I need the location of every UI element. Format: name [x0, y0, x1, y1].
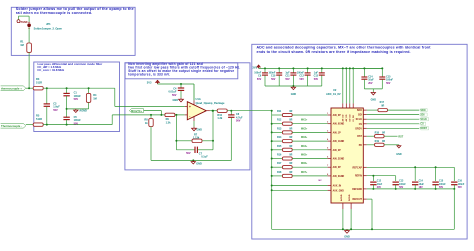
- svg-text:3V3: 3V3: [147, 81, 152, 85]
- svg-text:GND: GND: [344, 235, 350, 238]
- svg-text:U1A: U1A: [196, 97, 201, 101]
- svg-text:3: 3: [327, 130, 328, 132]
- svg-text:RST: RST: [398, 135, 403, 138]
- svg-text:rail when no thermocouple is c: rail when no thermocouple is connected.: [16, 11, 93, 15]
- svg-text:10uF: 10uF: [377, 184, 383, 186]
- svg-text:MX3+: MX3+: [301, 136, 308, 139]
- svg-text:DV_DD: DV_DD: [350, 114, 352, 122]
- svg-text:DGND: DGND: [349, 194, 351, 201]
- svg-text:MX4+: MX4+: [301, 145, 308, 148]
- svg-text:AIN_3P: AIN_3P: [333, 166, 342, 169]
- svg-text:GND: GND: [196, 129, 202, 132]
- svg-text:1.3k: 1.3k: [217, 117, 222, 120]
- svg-text:0R: 0R: [289, 145, 292, 148]
- svg-text:100nF: 100nF: [439, 184, 446, 186]
- svg-text:511R: 511R: [36, 117, 42, 121]
- svg-text:R14: R14: [277, 136, 282, 139]
- svg-text:AUX_GND: AUX_GND: [333, 189, 345, 192]
- svg-text:1.3k: 1.3k: [166, 121, 171, 124]
- svg-text:50V: 50V: [285, 78, 290, 81]
- svg-text:AIN_2P: AIN_2P: [333, 149, 342, 152]
- svg-text:R15: R15: [277, 145, 282, 148]
- svg-text:R16: R16: [277, 154, 282, 157]
- svg-text:REFIN: REFIN: [355, 176, 362, 178]
- svg-text:7: 7: [327, 165, 328, 167]
- svg-text:PGND: PGND: [21, 21, 28, 24]
- svg-text:R19: R19: [375, 140, 380, 143]
- svg-text:50V: 50V: [271, 78, 276, 81]
- svg-text:AIN_1GND: AIN_1GND: [333, 140, 345, 143]
- svg-text:AIN_0GND: AIN_0GND: [333, 123, 345, 126]
- svg-text:20V: 20V: [368, 82, 373, 85]
- svg-text:50V: 50V: [53, 109, 58, 112]
- svg-text:GND: GND: [291, 93, 297, 96]
- svg-text:0R: 0R: [289, 171, 292, 174]
- svg-text:2: 2: [327, 122, 328, 124]
- svg-text:MXn/TC+: MXn/TC+: [131, 109, 143, 113]
- svg-text:ADC_19_8V: ADC_19_8V: [326, 92, 341, 96]
- svg-text:MX6+: MX6+: [301, 162, 308, 165]
- svg-text:temperatures, is 333 mV.: temperatures, is 333 mV.: [128, 73, 170, 77]
- svg-text:C15: C15: [439, 181, 444, 183]
- svg-text:0R: 0R: [289, 119, 292, 122]
- svg-text:R12: R12: [277, 119, 282, 122]
- svg-text:SDO: SDO: [357, 110, 362, 112]
- svg-text:0R: 0R: [289, 110, 292, 113]
- svg-text:PD: PD: [359, 145, 363, 147]
- svg-text:1: 1: [327, 113, 328, 115]
- svg-text:R18: R18: [375, 131, 380, 134]
- svg-text:ends to the circuit shown. 0R: ends to the circuit shown. 0R resistors …: [257, 50, 411, 54]
- svg-text:50V: 50V: [386, 82, 391, 85]
- svg-text:6: 6: [327, 156, 328, 158]
- svg-text:0R: 0R: [289, 162, 292, 165]
- svg-text:50V: 50V: [257, 78, 262, 81]
- svg-text:GND: GND: [172, 99, 178, 102]
- svg-text:SolderJumper_2_Open: SolderJumper_2_Open: [34, 26, 63, 30]
- svg-text:0R: 0R: [381, 105, 384, 108]
- svg-text:C14: C14: [419, 180, 424, 183]
- svg-text:50V: 50V: [314, 78, 319, 81]
- svg-text:0R: 0R: [289, 136, 292, 139]
- svg-text:NC: NC: [319, 180, 323, 182]
- svg-text:AV_DD: AV_DD: [345, 114, 348, 121]
- svg-text:50V: 50V: [172, 94, 177, 97]
- svg-text:R11: R11: [277, 110, 282, 113]
- svg-text:Quad_Opamp_Package: Quad_Opamp_Package: [196, 101, 226, 105]
- svg-text:+: +: [189, 105, 191, 109]
- svg-text:5: 5: [327, 148, 328, 150]
- svg-text:50V: 50V: [458, 187, 463, 189]
- svg-text:100nF: 100nF: [458, 184, 465, 186]
- svg-text:3V3: 3V3: [252, 66, 257, 70]
- svg-text:8: 8: [327, 174, 328, 176]
- svg-text:0R: 0R: [382, 131, 385, 134]
- svg-text:CS: CS: [359, 124, 363, 126]
- svg-text:50V: 50V: [236, 120, 241, 123]
- svg-text:AIN_3GND: AIN_3GND: [333, 175, 345, 178]
- svg-text:C13: C13: [399, 181, 404, 183]
- svg-text:MX5+: MX5+: [301, 154, 308, 157]
- svg-text:50V: 50V: [74, 122, 79, 125]
- svg-text:R18: R18: [277, 171, 282, 174]
- svg-text:Thermocouple -: Thermocouple -: [1, 124, 22, 128]
- svg-text:FC_com = 31.8 MHz: FC_com = 31.8 MHz: [38, 68, 65, 72]
- svg-text:0R: 0R: [289, 127, 292, 130]
- svg-text:100nF: 100nF: [399, 184, 406, 186]
- svg-text:-: -: [189, 114, 190, 118]
- svg-text:MX2+: MX2+: [301, 127, 308, 130]
- svg-text:SDI: SDI: [358, 115, 362, 117]
- svg-text:50V: 50V: [186, 152, 191, 155]
- svg-text:AUX_IN: AUX_IN: [333, 185, 342, 188]
- svg-text:MX7+: MX7+: [301, 171, 308, 174]
- svg-text:C16: C16: [458, 181, 463, 183]
- svg-text:REFGND: REFGND: [352, 189, 362, 191]
- svg-text:0R: 0R: [382, 140, 385, 143]
- svg-text:SCLK: SCLK: [356, 119, 363, 121]
- svg-text:MX1+: MX1+: [301, 119, 308, 122]
- svg-text:AGND: AGND: [340, 194, 343, 201]
- svg-text:50V: 50V: [300, 78, 305, 81]
- svg-text:511R: 511R: [36, 80, 42, 84]
- svg-text:thermocouple +: thermocouple +: [1, 86, 22, 90]
- svg-text:AGND: AGND: [79, 110, 87, 113]
- svg-text:0R: 0R: [289, 154, 292, 157]
- svg-text:R13: R13: [277, 127, 282, 130]
- svg-text:1.13k: 1.13k: [193, 137, 200, 140]
- svg-text:AV_DD: AV_DD: [342, 114, 345, 121]
- svg-text:AIN_0P: AIN_0P: [333, 114, 342, 117]
- svg-text:R17: R17: [277, 162, 282, 165]
- svg-text:JP1: JP1: [46, 22, 51, 26]
- svg-text:AIN_2GND: AIN_2GND: [333, 158, 345, 161]
- svg-text:1M: 1M: [93, 97, 96, 100]
- svg-text:GND: GND: [371, 98, 377, 101]
- svg-text:U2: U2: [333, 88, 337, 92]
- svg-text:50V: 50V: [74, 98, 79, 101]
- svg-text:10uF: 10uF: [419, 184, 425, 186]
- svg-text:AIN_1P: AIN_1P: [333, 131, 342, 134]
- svg-text:GND: GND: [196, 162, 202, 165]
- svg-text:REFCAP: REFCAP: [352, 166, 362, 169]
- svg-text:REFOUT: REFOUT: [352, 199, 362, 201]
- svg-text:0.1uF: 0.1uF: [201, 155, 208, 158]
- svg-text:C12: C12: [377, 181, 382, 183]
- svg-text:RST: RST: [357, 136, 362, 138]
- svg-text:GND: GND: [396, 153, 402, 156]
- svg-text:ADC and associated decoupling: ADC and associated decoupling capacitors…: [257, 45, 432, 49]
- svg-text:1M: 1M: [20, 43, 24, 47]
- svg-text:DRDY: DRDY: [355, 128, 362, 130]
